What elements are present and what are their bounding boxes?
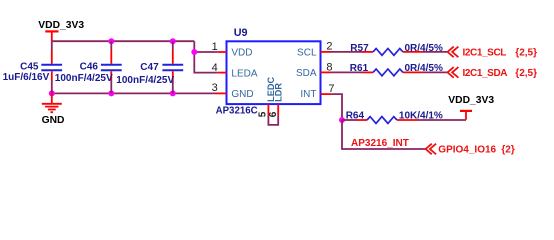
wire pin2 to R57 xyxy=(331,51,362,53)
node junction C46 bottom xyxy=(108,90,114,96)
svg-text:6: 6 xyxy=(268,111,279,117)
svg-text:100nF/4/25V: 100nF/4/25V xyxy=(116,75,174,86)
wire top rail xyxy=(52,40,195,42)
node junction INT xyxy=(339,117,345,123)
svg-text:AP3216_INT: AP3216_INT xyxy=(351,138,409,149)
wire rail corner to pin1 branch xyxy=(194,41,218,52)
svg-text:U9: U9 xyxy=(234,27,248,39)
wire pins 5-6 strap xyxy=(268,116,278,125)
pin 4 LEDA xyxy=(212,62,258,80)
svg-text:I2C1_SCL: I2C1_SCL xyxy=(463,48,507,59)
svg-text:R61: R61 xyxy=(350,63,369,74)
svg-text:INT: INT xyxy=(300,89,316,100)
resistor R57 xyxy=(350,43,443,56)
svg-text:VDD: VDD xyxy=(231,48,252,59)
svg-text:4: 4 xyxy=(212,62,218,74)
svg-text:R57: R57 xyxy=(350,43,369,54)
svg-text:1: 1 xyxy=(212,41,218,53)
pin 8 SDA xyxy=(296,61,333,79)
svg-text:LDR: LDR xyxy=(274,83,284,102)
IC U9 AP3216C body xyxy=(216,27,321,117)
svg-text:GND: GND xyxy=(231,89,253,100)
resistor R61 xyxy=(350,63,443,76)
svg-text:C47: C47 xyxy=(140,62,159,73)
svg-text:I2C1_SDA: I2C1_SDA xyxy=(463,68,508,79)
ground xyxy=(42,93,65,126)
svg-text:GND: GND xyxy=(42,115,65,126)
node junction C47 top xyxy=(170,38,176,44)
svg-text:1uF/6/16V: 1uF/6/16V xyxy=(3,72,50,83)
power VDD_3V3 (left) xyxy=(38,20,84,41)
svg-text:3: 3 xyxy=(212,82,218,94)
capacitor C47 xyxy=(116,41,183,93)
pin 5 LEDC xyxy=(258,77,276,118)
pin 3 GND xyxy=(212,82,254,100)
wire junction down to AP3216_INT net xyxy=(342,120,426,149)
node junction C46 top xyxy=(108,38,114,44)
offpage connector GPIO4_IO16 xyxy=(426,144,515,156)
svg-text:2: 2 xyxy=(326,41,332,53)
svg-text:SCL: SCL xyxy=(297,48,317,59)
svg-text:AP3216C: AP3216C xyxy=(216,106,258,117)
offpage connector I2C1_SDA xyxy=(448,67,538,79)
capacitor C46 xyxy=(55,41,122,93)
svg-text:C45: C45 xyxy=(20,61,39,72)
svg-text:LEDA: LEDA xyxy=(231,68,257,79)
svg-text:{2,5}: {2,5} xyxy=(515,48,537,59)
svg-text:C46: C46 xyxy=(80,61,99,72)
node junction C45 bottom xyxy=(49,90,55,96)
pin 7 INT xyxy=(300,83,334,100)
svg-text:{2,5}: {2,5} xyxy=(515,68,537,79)
node junction C47 bottom xyxy=(170,90,176,96)
wire R57 to offpage xyxy=(423,51,447,53)
offpage connector I2C1_SCL xyxy=(448,47,538,59)
pin 2 SCL xyxy=(297,41,332,59)
svg-text:VDD_3V3: VDD_3V3 xyxy=(38,20,84,31)
wire pin8 to R61 xyxy=(331,71,362,73)
wire R61 to offpage xyxy=(423,71,447,73)
capacitor C45 xyxy=(3,41,63,93)
svg-text:{2}: {2} xyxy=(501,144,514,155)
node junction pin1 branch xyxy=(191,49,197,55)
pin 6 LDR xyxy=(268,83,284,118)
wire R64 to VDD xyxy=(417,119,466,121)
wire branch down to pin4 xyxy=(194,52,218,73)
resistor R64 xyxy=(346,110,443,123)
svg-text:VDD_3V3: VDD_3V3 xyxy=(448,95,494,106)
svg-text:SDA: SDA xyxy=(296,68,317,79)
power VDD_3V3 (right) xyxy=(448,95,494,120)
pin 1 VDD xyxy=(212,41,253,59)
svg-text:R64: R64 xyxy=(346,110,365,121)
svg-text:100nF/4/25V: 100nF/4/25V xyxy=(55,73,113,84)
wire junction to R64 xyxy=(342,119,357,121)
wire bottom rail xyxy=(52,92,216,94)
svg-text:GPIO4_IO16: GPIO4_IO16 xyxy=(438,144,496,155)
wire pin7 down xyxy=(331,94,342,120)
